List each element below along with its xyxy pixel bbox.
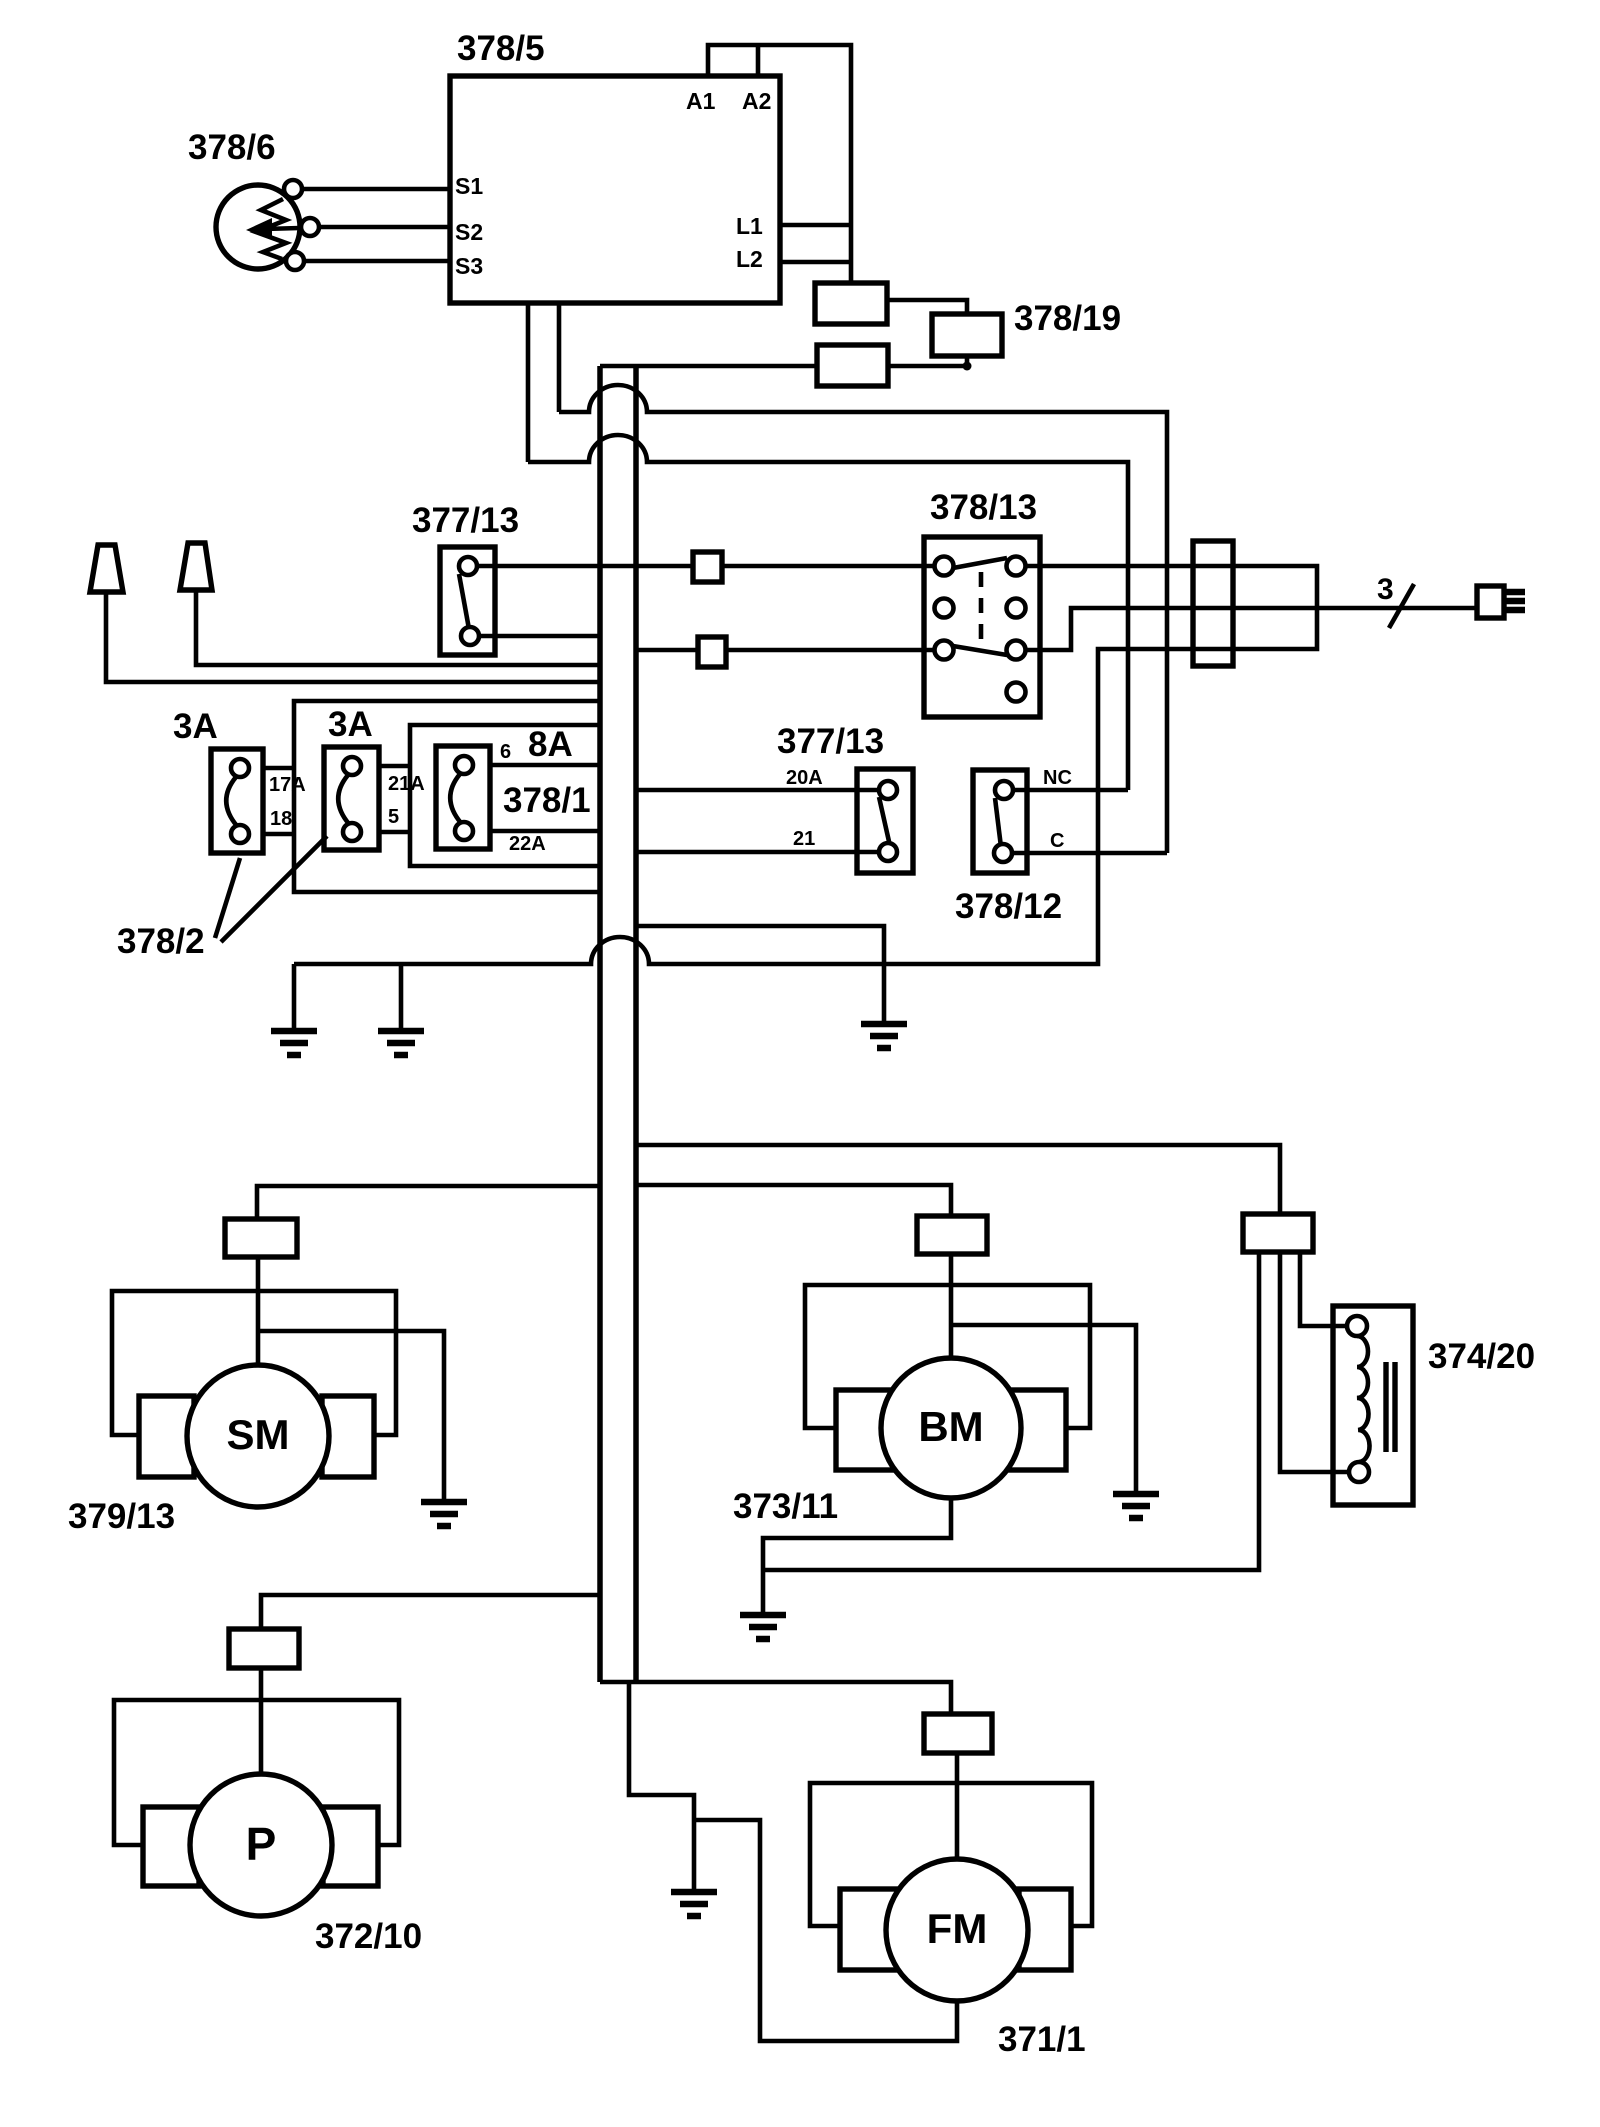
svg-text:378/5: 378/5 [457, 29, 545, 68]
motor P 372/10 [190, 1774, 332, 1916]
svg-text:FM: FM [927, 1905, 988, 1952]
wire 374/20 feed [636, 1145, 1280, 1214]
svg-text:8A: 8A [528, 725, 573, 764]
svg-text:378/1: 378/1 [503, 781, 591, 820]
wire S2 [319, 225, 450, 230]
connector plug right [1477, 586, 1525, 618]
wire 374/20 leg to coil bottom [1280, 1252, 1349, 1472]
wire upper bus with hop to C [559, 385, 1167, 853]
wire A1 bracket to 378/19 [708, 45, 851, 283]
svg-text:17A: 17A [269, 774, 306, 796]
wire trunk top to 378/19 lower [600, 364, 817, 369]
svg-text:378/2: 378/2 [117, 922, 205, 961]
lamp symbol 2 [180, 543, 212, 590]
svg-text:372/10: 372/10 [315, 1917, 422, 1956]
wire F3 top 6 [490, 763, 600, 768]
ground G1 [271, 964, 317, 1055]
svg-text:S2: S2 [455, 219, 483, 245]
wire trunk to ground G3 [636, 926, 884, 1024]
brush left BM [836, 1390, 897, 1470]
wire SM feed [257, 1186, 600, 1219]
ground G6 [1113, 1494, 1159, 1518]
wire FM connector to motor [955, 1753, 960, 1860]
connector pass-through [1193, 541, 1233, 666]
connector BM [917, 1216, 987, 1254]
stator bracket FM [810, 1783, 1092, 1926]
lamp symbol 1 [90, 545, 123, 592]
switch 378/12 [973, 770, 1027, 873]
fuse F2 3A [324, 747, 379, 850]
ground G5 [421, 1502, 467, 1526]
wire FM return [694, 1820, 957, 2041]
solenoid 374/20 [1333, 1306, 1413, 1505]
brush right SM [322, 1396, 374, 1477]
wire SM tap to ground G5 [258, 1331, 444, 1502]
wire trunk bottom to FM [600, 1682, 951, 1714]
control unit 378/5 [450, 76, 780, 303]
connector FM [924, 1714, 992, 1753]
wire 378/5 bottom left drop [526, 303, 531, 462]
switch 377/13 [440, 547, 495, 655]
trunk cable right line [633, 366, 639, 1682]
wire S1 [302, 187, 450, 192]
potentiometer 378/6 [216, 185, 300, 269]
svg-text:21A: 21A [388, 773, 425, 795]
wire S3 [304, 259, 450, 264]
brush right BM [1007, 1390, 1066, 1470]
brush right P [323, 1807, 378, 1886]
svg-text:3: 3 [1377, 573, 1394, 606]
svg-text:NC: NC [1043, 767, 1072, 789]
wire ground bus to connector [294, 649, 1233, 964]
wire trunk to 377/13 pin 20A [636, 788, 879, 793]
fuse F1 3A [211, 749, 263, 853]
relay 378/13 [924, 537, 1040, 717]
wire pin A2 stub [756, 45, 761, 76]
pointer line to F2 [221, 836, 327, 942]
terminal of 378/6 middle [301, 218, 319, 236]
svg-text:BM: BM [918, 1403, 983, 1450]
svg-text:379/13: 379/13 [68, 1497, 175, 1536]
wire trunk to relay 378/13 bottom row [636, 648, 934, 653]
brush left P [143, 1807, 199, 1886]
fuse block inner outline [410, 725, 600, 866]
stator bracket P [114, 1700, 399, 1845]
wire 374/20 leg to coil top [1300, 1252, 1347, 1326]
terminal of 378/6 bottom [286, 252, 304, 270]
svg-text:374/20: 374/20 [1428, 1337, 1535, 1376]
svg-text:5: 5 [388, 806, 399, 828]
connector on bottom relay wire [698, 637, 726, 667]
svg-text:C: C [1050, 830, 1064, 852]
wire BM tap to ground G6 [951, 1325, 1136, 1494]
svg-text:3A: 3A [173, 707, 218, 746]
ground G4 [671, 1892, 717, 1916]
svg-text:A2: A2 [742, 88, 771, 114]
wire NC [1013, 788, 1128, 793]
connector 378/19 side [932, 314, 1002, 356]
connector SM [225, 1219, 297, 1257]
svg-text:377/13: 377/13 [777, 722, 884, 761]
wire trunk drop to ground G4 [629, 1682, 694, 1892]
cable slash [1389, 584, 1414, 628]
svg-text:378/13: 378/13 [930, 488, 1037, 527]
wire 378/19 lower to side [888, 364, 967, 369]
wire F2 bottom 5 [379, 830, 410, 835]
wire 377/13 lower to trunk [479, 634, 600, 639]
svg-text:371/1: 371/1 [998, 2020, 1086, 2059]
connector 374/20 [1243, 1214, 1313, 1252]
svg-text:21: 21 [793, 828, 815, 850]
wire 377/13 to relay 378/13 top row [477, 564, 934, 569]
connector 378/19 lower [817, 345, 888, 386]
svg-text:20A: 20A [786, 767, 823, 789]
svg-text:373/11: 373/11 [733, 1487, 838, 1526]
svg-text:377/13: 377/13 [412, 501, 519, 540]
stator bracket BM [805, 1285, 1090, 1428]
ground G3 [861, 1024, 907, 1048]
wire L2 [780, 260, 851, 265]
motor SM 379/13 [187, 1365, 329, 1507]
wire P feed [261, 1595, 600, 1629]
wire trunk to 377/13 pin 21 [636, 850, 879, 855]
svg-text:18: 18 [270, 808, 292, 830]
svg-text:L2: L2 [736, 246, 763, 272]
fuse block outer outline 378/2 [294, 701, 600, 892]
wire relay output with jog to line 3 [1026, 608, 1477, 650]
pointer line to F1 [215, 858, 240, 938]
wire F1 top 17A [263, 766, 294, 771]
motor FM 371/1 [886, 1859, 1028, 2001]
switch 377/13 middle [857, 769, 913, 873]
motor BM 373/11 [881, 1358, 1021, 1498]
svg-text:SM: SM [227, 1411, 290, 1458]
wire BM connector to motor [949, 1254, 954, 1361]
trunk cable left line [597, 366, 603, 1682]
wire L1 [780, 223, 851, 228]
svg-text:22A: 22A [509, 833, 546, 855]
brush right FM [1019, 1889, 1071, 1970]
svg-text:A1: A1 [686, 88, 716, 114]
wire F2 top 21A [379, 764, 410, 769]
wire lower bus with hop to NC [528, 435, 1128, 790]
wire BM bottom to ground G7 [763, 1498, 951, 1615]
connector on top relay wire [693, 552, 722, 582]
svg-text:378/19: 378/19 [1014, 299, 1121, 338]
ground G2 [378, 964, 424, 1055]
wire SM connector to motor [256, 1257, 261, 1366]
wire 374/20 return to ground G7 [763, 1252, 1259, 1570]
svg-text:S1: S1 [455, 173, 483, 199]
wire lamp1 to trunk [106, 592, 600, 682]
wire P connector to motor [259, 1668, 264, 1775]
ground G7 [740, 1615, 786, 1639]
terminal of 378/6 top [284, 180, 302, 198]
wire 378/19 upper to side [887, 300, 967, 314]
brush left FM [840, 1889, 897, 1970]
connector 378/19 upper [815, 283, 887, 324]
wire F3 bottom 22A [490, 829, 600, 834]
wire 378/5 bottom right drop [557, 303, 562, 412]
svg-text:S3: S3 [455, 253, 483, 279]
connector P [229, 1629, 299, 1668]
svg-text:6: 6 [500, 741, 511, 763]
svg-text:P: P [246, 1818, 277, 1870]
wire BM feed [636, 1185, 951, 1216]
svg-text:L1: L1 [736, 213, 763, 239]
fuse F3 8A [436, 746, 490, 849]
wire lamp2 to trunk [196, 590, 600, 665]
stator bracket SM [112, 1291, 396, 1435]
svg-text:3A: 3A [328, 705, 373, 744]
wire F1 bottom 18 [263, 832, 294, 837]
svg-text:378/6: 378/6 [188, 128, 276, 167]
wire relay to connector and return loop [1026, 566, 1317, 649]
brush left SM [139, 1396, 194, 1477]
wire 378/19 side to lower [965, 356, 970, 366]
svg-text:378/12: 378/12 [955, 887, 1062, 926]
junction [963, 362, 972, 371]
wire C [1012, 851, 1167, 856]
